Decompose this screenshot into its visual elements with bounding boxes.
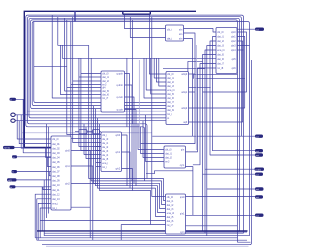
svg-text:dat_i5: dat_i5 [167, 93, 174, 96]
wire fan tap to U4 pin 2 [156, 58, 166, 82]
svg-text:out[1]: out[1] [255, 168, 261, 171]
wire y66.7 segment [34, 66, 67, 68]
buffer G1 [79, 130, 87, 134]
block U6 unconnected pin stubs [96, 147, 101, 167]
svg-text:dat_i5: dat_i5 [167, 216, 174, 219]
port R4 output connector [255, 153, 263, 157]
wire long horizontal net to U2 pin row [73, 11, 75, 21]
wire U8 pin feed via x121.2 [121, 225, 165, 241]
wire U5 right stub net c [71, 183, 99, 185]
svg-text:da_i2: da_i2 [102, 146, 109, 149]
wire bottom bundle line 3 to U8 pin [94, 106, 166, 209]
wire long vertical net from bus to U8 pin 0 [152, 17, 166, 197]
wire dark jog segment on top line [123, 11, 151, 14]
wire P2 hang to U5 pin 0 [17, 115, 51, 139]
svg-text:dat_05: dat_05 [52, 161, 60, 164]
wire U3 right stub 3 into bundle [125, 110, 137, 186]
svg-text:out: out [256, 188, 259, 191]
wire port P8 net to U5 pin [16, 186, 52, 188]
svg-text:out: out [256, 214, 259, 217]
svg-text:q/n3: q/n3 [231, 45, 236, 48]
wire P2 hang to U5 pin 2 [21, 115, 51, 148]
wire U1 output c to R2 port long net [152, 39, 255, 137]
svg-text:dat_i9: dat_i9 [167, 109, 174, 112]
svg-text:dat_13: dat_13 [52, 198, 60, 201]
svg-text:dat_i1: dat_i1 [102, 76, 109, 79]
svg-text:q/n0: q/n0 [115, 134, 120, 137]
wire U8 right stub extra [186, 225, 238, 227]
svg-text:dat_03: dat_03 [52, 152, 60, 155]
wire U3 right stub 2 into bundle [125, 97, 135, 183]
wire dark top border line with left drop to net [24, 11, 196, 147]
svg-text:dat_i6: dat_i6 [167, 97, 174, 100]
wire stepped net under U7 [146, 171, 193, 174]
wire bottom bundle line 5 to U8 pin [98, 118, 166, 217]
wire long net y58.3 from corner to U2 [62, 45, 216, 58]
svg-text:dat_i2: dat_i2 [165, 157, 172, 160]
wire right sheet edge with rounded bottom corner [42, 60, 252, 245]
port R7 output connector [255, 187, 264, 191]
svg-text:da_i0: da_i0 [102, 138, 109, 141]
port R8 output connector [255, 195, 263, 199]
block U1 body [166, 25, 184, 41]
wire fan tap to U4 pin 1 [154, 58, 166, 78]
svg-text:rst_i8: rst_i8 [217, 67, 224, 70]
wire U5 feed elbow y189.6 [43, 187, 51, 190]
svg-text:q.ov/n: q.ov/n [116, 96, 123, 99]
wire U8 right stub mid to right column [186, 214, 248, 216]
wire U7 left pin feed 2 [141, 127, 165, 154]
svg-text:dat_i3: dat_i3 [167, 85, 174, 88]
wire P3 hang to U5 pin 1 [19, 121, 51, 144]
wire top bus line E [32, 22, 249, 236]
svg-text:q/n2: q/n2 [65, 183, 70, 186]
wire U4 right stub to corridor [189, 73, 196, 75]
wire U5 lower pin net y208 with long link to U8 pin [40, 208, 165, 238]
svg-text:dat_i1: dat_i1 [217, 36, 224, 39]
svg-text:ena_i4: ena_i4 [167, 212, 175, 215]
wire top bus line B to right port column [27, 17, 241, 179]
buffer G2 [93, 130, 100, 134]
svg-text:q/n0: q/n0 [180, 196, 185, 199]
svg-text:clk_i0: clk_i0 [217, 31, 224, 34]
wire tap to U3 pin d0 [81, 58, 101, 150]
wire staircase to U3 pin d6 [60, 45, 101, 94]
svg-text:dat_12: dat_12 [52, 193, 60, 196]
svg-text:ena_i4: ena_i4 [167, 89, 175, 92]
svg-text:dat_i1: dat_i1 [167, 77, 174, 80]
svg-text:q/n4: q/n4 [231, 49, 236, 52]
svg-text:ena_i4: ena_i4 [217, 49, 225, 52]
wire top bus line A down both sides [26, 15, 244, 233]
svg-text:rst_i: rst_i [52, 207, 57, 210]
svg-text:q/n1: q/n1 [65, 165, 70, 168]
svg-text:out: out [256, 150, 259, 153]
svg-text:qn6: qn6 [232, 67, 237, 70]
wire port R1 stub from U2 [237, 28, 255, 30]
wire net y87.3 [189, 86, 211, 88]
wire U5 feed elbow y166.6 [48, 157, 52, 167]
wire U2 pin to U6 right stub [193, 64, 216, 165]
svg-text:dat_01: dat_01 [52, 143, 60, 146]
svg-text:dat_02: dat_02 [52, 147, 60, 150]
wire U6 right stub c down [122, 169, 133, 191]
wire vertical pair mate with horizontal y66.7 [75, 11, 77, 21]
svg-text:da_i3: da_i3 [102, 150, 109, 153]
wire staircase to U3 pin d2 [73, 17, 101, 143]
svg-text:clk_i: clk_i [102, 134, 107, 137]
svg-text:cy/n: cy/n [180, 231, 185, 234]
svg-text:rst_i: rst_i [167, 113, 172, 116]
wire top bus line C [29, 18, 240, 231]
wire U2 pin to U6 right stub 2 [186, 68, 217, 152]
svg-text:st: st [167, 117, 169, 120]
wire fan tap to U4 pin 3 [159, 58, 166, 86]
svg-text:q/n0: q/n0 [65, 150, 70, 153]
wire bus tap to U1 pin b [130, 17, 165, 38]
wire bottom bundle line 4 to U8 pin [96, 109, 166, 213]
svg-text:rst_i7: rst_i7 [167, 224, 174, 227]
svg-text:rst_i7: rst_i7 [102, 97, 109, 100]
wire U7 left pin feed 4 [146, 115, 165, 162]
svg-text:out: out [256, 28, 259, 31]
wire corner net x57.8 to bundle top [58, 17, 89, 46]
svg-text:q.dn/n: q.dn/n [116, 84, 123, 87]
port P3 input ring [11, 119, 15, 122]
block U8 body [166, 194, 186, 234]
svg-text:out: out [256, 154, 259, 157]
svg-text:da_i4: da_i4 [102, 154, 109, 157]
svg-text:in[3:0]: in[3:0] [4, 148, 10, 150]
svg-text:dat_10: dat_10 [52, 184, 60, 187]
port P5 input connector [12, 155, 17, 159]
port R5 wide output connector [255, 168, 265, 172]
svg-text:dat_04: dat_04 [52, 157, 60, 160]
svg-text:q/n1: q/n1 [115, 151, 120, 154]
port R9 output connector [255, 214, 264, 218]
wire U2 right stub to U4 right pin y108 [189, 37, 245, 109]
svg-text:q/n1: q/n1 [180, 213, 185, 216]
svg-text:u2/q1: u2/q1 [181, 91, 188, 94]
svg-text:q/n2: q/n2 [231, 40, 236, 43]
wire U2 pin to port R4 [210, 41, 255, 155]
svg-text:u2/q0: u2/q0 [181, 73, 188, 76]
wire bottom shadow line [46, 245, 249, 247]
svg-text:out: out [256, 135, 259, 138]
wire net y74.3 [194, 74, 238, 78]
port R6 output connector [255, 173, 263, 177]
wire U5 lower pin net y194.2 [35, 194, 51, 238]
wire U7 left pin feed 3 [143, 121, 164, 158]
port P2 input ring [11, 113, 15, 116]
block U4 body [166, 72, 189, 125]
svg-text:da_i1: da_i1 [102, 142, 109, 145]
wire P7 hang down to bottom bus [44, 180, 249, 236]
wire net y68.7 [163, 68, 205, 70]
wire bus tap x132.4 [131, 20, 133, 124]
wire U7 right lower stub drop [186, 167, 193, 216]
wire buffer chain link [75, 131, 101, 133]
svg-text:dat_i5: dat_i5 [102, 90, 109, 93]
wire U6 right stub b down [122, 152, 131, 188]
port P7 wide input connector [7, 178, 17, 182]
wire staircase to U3 pin d4 [67, 20, 101, 135]
wire U2 pin to port R3 [213, 37, 256, 151]
wire port P5 net to U5 pin [17, 156, 51, 158]
wire fan tap to U4 pin 6 [144, 58, 166, 98]
svg-text:dat_i7: dat_i7 [167, 101, 174, 104]
wire U3 right stub 1 into bundle [125, 85, 133, 181]
wire bus tap down to U4 pin 0 [149, 15, 166, 74]
wire U1 output a to U2 top pin [184, 29, 217, 33]
wire U2 right stub to U4 right pin y122 [189, 41, 243, 122]
port R1 output connector [255, 28, 264, 32]
wire port P4 stub [15, 147, 25, 149]
port R3 output connector [255, 149, 263, 153]
block U2 body [216, 28, 237, 74]
svg-text:out: out [256, 173, 259, 176]
svg-text:q/n0: q/n0 [231, 31, 236, 34]
wire bottom bundle line 6 [100, 124, 151, 225]
svg-text:out: out [256, 196, 259, 199]
block U7 body [164, 146, 186, 168]
wire port P6 net to U5 pin [17, 171, 51, 173]
svg-text:dat_i2: dat_i2 [167, 204, 174, 207]
wire highlighted net at y132.8 [22, 132, 152, 134]
svg-text:ena_i: ena_i [102, 162, 108, 165]
svg-text:in[1]: in[1] [8, 180, 13, 182]
port P6 input connector [12, 170, 18, 174]
svg-text:da_i5: da_i5 [102, 158, 109, 161]
svg-text:dat_i3: dat_i3 [217, 45, 224, 48]
wire highlighted net band [27, 110, 166, 112]
wire U5 right stub net b [71, 166, 93, 240]
wire U8 right stub bottom joining dark bus [186, 231, 248, 233]
wire U5 bottom right stub [71, 206, 90, 208]
svg-text:dat_i1: dat_i1 [167, 200, 174, 203]
svg-text:dat_i7: dat_i7 [217, 63, 224, 66]
svg-text:dat_06: dat_06 [52, 166, 60, 169]
wire U6 right stub a down [122, 135, 128, 186]
wire U2 right stub join [237, 49, 244, 51]
wire U5 lower pin net y198.8 [37, 199, 51, 240]
svg-text:dat_i2: dat_i2 [217, 40, 224, 43]
port P4 wide input connector [3, 146, 15, 150]
wire left vertical filler b [48, 127, 50, 214]
svg-text:q/n1: q/n1 [231, 36, 236, 39]
wire staircase to U3 pin d5 [65, 18, 101, 91]
wire bus tap F to U4 pin [34, 22, 166, 103]
svg-text:clk_i0: clk_i0 [167, 196, 174, 199]
wire fan tap to U4 pin 4 [146, 58, 166, 90]
svg-text:dat_i: dat_i [167, 37, 173, 40]
svg-text:rst_i: rst_i [102, 166, 107, 169]
svg-text:dat_i5: dat_i5 [217, 54, 224, 57]
wire U5 feed elbow y175.8 [49, 172, 51, 176]
wire U2 right stub to U4 right pin y92 [203, 32, 247, 92]
wire net y78.7 [196, 78, 245, 80]
wire U6 left pin feed 5 [86, 127, 101, 159]
svg-text:q.cy/n: q.cy/n [117, 109, 124, 112]
svg-text:clk_i0: clk_i0 [52, 138, 59, 141]
block U3 body [101, 71, 125, 112]
wire U4 right stub y92 [189, 91, 196, 93]
svg-text:clk_i: clk_i [167, 28, 172, 31]
wire U1 output b down right corridor to y143.6 net [141, 33, 196, 144]
wire bottom bundle line 1 to U8 pin [89, 45, 166, 200]
wire top bus line D with bottom-right inner corner [31, 20, 251, 242]
svg-text:dat_i6: dat_i6 [167, 220, 174, 223]
svg-text:dat_i6: dat_i6 [217, 58, 224, 61]
wire port P3 net across to U4 [15, 120, 166, 122]
svg-text:dat_07: dat_07 [52, 170, 60, 173]
svg-text:qn5: qn5 [232, 58, 237, 61]
wire bottom bus second line [44, 232, 244, 234]
wire port P1 net to U5 pin [16, 99, 51, 153]
wire port P2 net across to U4 [15, 114, 166, 116]
svg-text:dat_i8: dat_i8 [167, 105, 174, 108]
wire fan tap to U4 pin 5 [151, 58, 166, 94]
wire U2 pin to port R6 [203, 55, 256, 231]
wire staircase from bus to U3 pin d7 [52, 15, 101, 98]
wire port R9 stub [238, 214, 256, 216]
wire U2 pin to port R7 [207, 46, 255, 236]
svg-text:dat_09: dat_09 [52, 180, 60, 183]
svg-text:clk_i0: clk_i0 [167, 73, 174, 76]
wire U3 right stub 0 into bundle [125, 74, 130, 179]
block U5 body [51, 136, 71, 210]
svg-text:ena_i: ena_i [52, 203, 58, 206]
wire U5 right stub net a [71, 151, 90, 238]
wire light vertical right corridor [195, 45, 197, 150]
wire staircase to U3 pin d3 [71, 22, 101, 139]
wire U7 left pin feed 1 [138, 124, 164, 150]
wire tap to U3 pin d1 [79, 58, 101, 146]
wire bus tap to U1 pin a [124, 15, 165, 28]
svg-text:clk_i0: clk_i0 [165, 149, 172, 152]
port P8 input connector [10, 185, 16, 189]
wire U2 right stub long drop to bottom bus [237, 45, 250, 47]
wire left vertical filler a [46, 124, 48, 218]
wire U2 pin to port R5 [205, 50, 255, 233]
port R2 output connector [255, 135, 263, 139]
svg-text:cy/n: cy/n [180, 164, 185, 167]
block U6 body [101, 132, 122, 172]
wire P8 hang to dark bottom bus [41, 187, 43, 231]
svg-text:dat_08: dat_08 [52, 175, 60, 178]
wire port P7 net to U5 pin [17, 179, 52, 181]
svg-text:q.up/n: q.up/n [116, 73, 123, 76]
wire U6 left pin feed 4 [84, 124, 101, 155]
wire light vertical pair member [138, 60, 140, 148]
svg-text:dat_i3: dat_i3 [167, 208, 174, 211]
svg-text:u2/q2: u2/q2 [181, 107, 188, 110]
wire dark bottom bus [37, 230, 248, 232]
wire U5 lower pin net y203.4 [38, 203, 51, 240]
wire vertical right of U3 [126, 58, 128, 127]
wire bottom bundle line 2 to U8 pin [91, 58, 165, 204]
svg-text:en3: en3 [165, 161, 170, 164]
svg-text:dat_i1: dat_i1 [165, 153, 172, 156]
wire U5 feed elbow y157.4 [46, 148, 52, 158]
port P1 input connector [10, 98, 17, 102]
svg-text:dat_i2: dat_i2 [167, 81, 174, 84]
wire port R8 net from U8 [186, 196, 256, 198]
wire corner net y61.3 [188, 61, 203, 71]
svg-text:q/n2: q/n2 [115, 168, 120, 171]
svg-text:dat_11: dat_11 [52, 189, 60, 192]
svg-text:uq3: uq3 [183, 121, 188, 124]
